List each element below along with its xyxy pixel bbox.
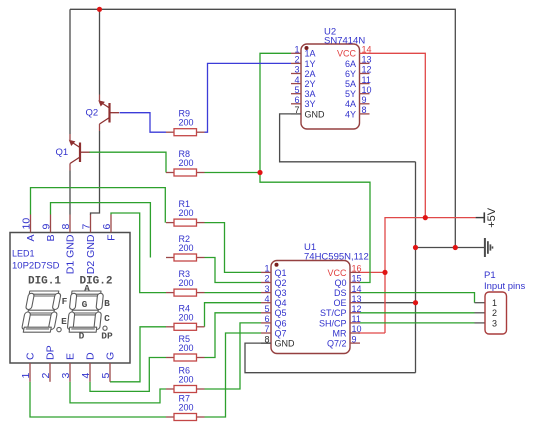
resistor R6 body xyxy=(174,386,197,393)
wire GND top rail from Q1 collector to right drop to ground rail xyxy=(70,9,455,247)
svg-text:5Y: 5Y xyxy=(345,89,356,99)
svg-text:Q2: Q2 xyxy=(275,278,287,288)
ground symbol xyxy=(485,238,493,257)
wire Q1 emitter to display D1-GND pin 8 xyxy=(69,171,71,215)
svg-text:4: 4 xyxy=(80,373,92,379)
resistor R8 right lead xyxy=(197,172,205,174)
svg-text:10: 10 xyxy=(21,218,33,230)
svg-text:7: 7 xyxy=(294,105,299,115)
wire R2 right to U1 Q2 pin2 xyxy=(205,258,262,283)
wire U1 DS pin14 to P1 pin1 xyxy=(360,293,475,303)
resistor R4 body xyxy=(174,323,197,330)
resistor R5 right lead xyxy=(197,357,205,359)
svg-text:6Y: 6Y xyxy=(345,69,356,79)
svg-text:200: 200 xyxy=(179,312,194,322)
wire U1 ST/CP pin12 to P1 pin2 xyxy=(360,312,475,314)
connector P1 body xyxy=(485,292,507,334)
svg-text:E: E xyxy=(61,316,67,327)
wire R9 right to U2 1Y pin2 (blue) xyxy=(205,63,292,132)
svg-text:6: 6 xyxy=(294,95,299,105)
display digit 2 segments xyxy=(67,291,104,332)
junction dot at 385,272.4 xyxy=(382,270,387,275)
svg-text:Q0: Q0 xyxy=(334,278,346,288)
resistor R7 left lead xyxy=(166,416,174,418)
wire U1 SH/CP pin11 to P1 pin3 xyxy=(360,322,475,324)
display bottom pin stubs xyxy=(29,363,31,382)
svg-text:5A: 5A xyxy=(345,79,356,89)
wire ground rail to earth symbol xyxy=(416,247,485,249)
svg-text:2: 2 xyxy=(40,373,52,379)
wire display segment A pin10 to R1 left xyxy=(31,188,166,223)
junction dot at 260,172.5 xyxy=(257,170,262,175)
wire display segment E pin3 to R6 left xyxy=(70,382,166,403)
svg-text:6: 6 xyxy=(101,224,113,230)
svg-text:200: 200 xyxy=(179,118,194,128)
svg-text:8: 8 xyxy=(362,105,367,115)
svg-text:9: 9 xyxy=(352,334,357,344)
svg-text:15: 15 xyxy=(352,274,362,284)
U1 pin 1 orientation dot xyxy=(275,263,279,267)
svg-text:74HC595N,112: 74HC595N,112 xyxy=(304,252,369,263)
wire Q1 base to R8 left xyxy=(89,152,166,172)
wire +5V red rail xyxy=(385,218,476,333)
svg-text:10: 10 xyxy=(352,324,362,334)
transistor Q1 emitter stub xyxy=(69,164,71,171)
svg-text:200: 200 xyxy=(179,375,194,385)
svg-text:Q1: Q1 xyxy=(56,147,69,158)
svg-text:G: G xyxy=(105,352,117,360)
svg-text:SH/CP: SH/CP xyxy=(319,318,347,328)
wire ground net vertical x=415.5 xyxy=(415,162,417,373)
svg-text:16: 16 xyxy=(352,264,362,274)
wire U1 MR pin10 to red net xyxy=(358,332,385,334)
svg-text:2A: 2A xyxy=(305,69,316,79)
svg-text:13: 13 xyxy=(352,294,362,304)
op-amp U2 SN7414N body xyxy=(301,44,360,129)
transistor Q2 collector stub xyxy=(99,95,101,102)
wire R5 right to U1 Q5 pin5 xyxy=(205,313,262,358)
svg-text:DP: DP xyxy=(101,330,113,341)
svg-text:10: 10 xyxy=(362,85,372,95)
transistor Q2 base lead xyxy=(110,112,120,114)
svg-text:Q3: Q3 xyxy=(275,288,287,298)
svg-text:C: C xyxy=(25,352,37,360)
wire Q2 base to R9 left (blue) xyxy=(120,113,167,133)
resistor R7 right lead xyxy=(197,416,205,418)
svg-text:2: 2 xyxy=(492,308,497,318)
resistor R2 right lead xyxy=(197,257,205,259)
svg-text:6: 6 xyxy=(264,314,269,324)
wire display segment B pin9 to R2 left xyxy=(51,203,151,258)
svg-text:Q7: Q7 xyxy=(275,328,287,338)
svg-text:G: G xyxy=(82,299,88,310)
svg-text:E: E xyxy=(65,353,77,360)
svg-text:13: 13 xyxy=(362,55,372,65)
svg-text:6A: 6A xyxy=(345,59,356,69)
wire U1 OE pin13 to ground net xyxy=(360,302,416,304)
svg-text:D: D xyxy=(79,330,85,341)
svg-text:Q1: Q1 xyxy=(275,268,287,278)
svg-text:11: 11 xyxy=(352,314,361,324)
svg-text:8: 8 xyxy=(264,334,269,344)
svg-text:2: 2 xyxy=(294,55,299,65)
svg-text:12: 12 xyxy=(362,65,372,75)
resistor R6 right lead xyxy=(197,388,205,390)
wire Q2 emitter to display D2-GND pin 7 with jog xyxy=(91,131,100,215)
svg-text:3: 3 xyxy=(492,318,497,328)
svg-text:B: B xyxy=(104,298,110,309)
junction dot at 415.5,247.5 xyxy=(413,245,418,250)
svg-text:B: B xyxy=(45,235,57,242)
transistor Q1 base bar xyxy=(79,143,81,163)
svg-text:9: 9 xyxy=(362,95,367,105)
svg-text:10P2D7SD: 10P2D7SD xyxy=(12,261,60,272)
junction dot at 425.3,217.6 xyxy=(423,215,428,220)
resistor R4 left lead xyxy=(166,326,174,328)
wire Q2 collector vertical xyxy=(99,9,101,94)
svg-text:1: 1 xyxy=(20,373,32,379)
wire display segment G pin5 to R4 left xyxy=(110,327,166,382)
svg-text:DIG.1: DIG.1 xyxy=(28,276,61,288)
wire U1 VCC pin16 to red net xyxy=(358,271,385,273)
svg-text:1Y: 1Y xyxy=(305,59,316,69)
U2 pin 1 orientation dot xyxy=(305,46,309,50)
wire Q1 collector vertical xyxy=(69,9,71,134)
svg-text:Q6: Q6 xyxy=(275,318,287,328)
resistor R7 body xyxy=(174,414,197,421)
U2 pin stubs right xyxy=(360,52,370,54)
svg-text:F: F xyxy=(106,235,118,241)
resistor R5 body xyxy=(174,354,197,361)
svg-text:3: 3 xyxy=(60,373,72,379)
svg-text:200: 200 xyxy=(179,243,194,253)
svg-text:VCC: VCC xyxy=(327,268,347,278)
wire R8 right lead to junction xyxy=(205,172,261,174)
svg-text:5: 5 xyxy=(264,304,269,314)
transistor Q1 collector diagonal with arrow xyxy=(70,141,80,148)
transistor Q1 collector stub xyxy=(69,134,71,141)
svg-text:3Y: 3Y xyxy=(305,99,316,109)
wire R7 right to U1 Q7 pin7 xyxy=(205,333,262,417)
resistor R3 right lead xyxy=(197,292,205,294)
svg-text:D: D xyxy=(85,352,97,360)
wire R6 right to U1 Q6 pin6 xyxy=(205,323,262,389)
resistor R3 left lead xyxy=(166,292,174,294)
svg-text:200: 200 xyxy=(179,343,194,353)
svg-text:P1: P1 xyxy=(484,270,496,281)
wire display segment C pin1 to R7 left xyxy=(30,382,166,417)
svg-text:A: A xyxy=(84,283,90,294)
resistor R6 left lead xyxy=(166,388,174,390)
svg-text:200: 200 xyxy=(179,208,194,218)
svg-text:LED1: LED1 xyxy=(12,249,35,259)
transistor Q2 emitter stub xyxy=(99,124,101,131)
svg-text:1: 1 xyxy=(492,298,497,308)
resistor R9 left lead xyxy=(166,131,174,133)
svg-text:D1 GND: D1 GND xyxy=(65,234,77,274)
resistor R8 left lead xyxy=(166,172,174,174)
wire R3 right to U1 Q3 pin3 xyxy=(205,292,262,294)
svg-text:1: 1 xyxy=(294,45,299,55)
svg-text:Input pins: Input pins xyxy=(484,281,525,292)
svg-text:C: C xyxy=(104,313,110,324)
svg-text:+5V: +5V xyxy=(486,207,498,228)
svg-text:8: 8 xyxy=(60,224,72,230)
svg-text:2Y: 2Y xyxy=(305,79,316,89)
display top pin stubs xyxy=(30,215,32,233)
U1 pin stubs left xyxy=(261,271,271,273)
svg-text:Q7/2: Q7/2 xyxy=(327,339,347,349)
+5V terminal bar xyxy=(483,212,485,222)
wire R1 right to U1 Q1 pin1 xyxy=(205,223,262,273)
svg-text:3A: 3A xyxy=(305,89,316,99)
svg-text:7: 7 xyxy=(81,224,93,230)
svg-text:SN7414N: SN7414N xyxy=(324,36,365,47)
+5V terminal lead xyxy=(476,217,485,219)
svg-text:DP: DP xyxy=(45,345,57,360)
resistor R1 right lead xyxy=(197,222,205,224)
seven-segment display LED1 outline box xyxy=(10,233,130,364)
P1 pin stubs xyxy=(475,302,486,304)
svg-text:200: 200 xyxy=(179,278,194,288)
resistor R2 body xyxy=(174,254,197,261)
resistor R1 body xyxy=(174,219,197,226)
svg-text:2: 2 xyxy=(264,274,269,284)
svg-text:200: 200 xyxy=(179,158,194,168)
svg-text:Q4: Q4 xyxy=(275,298,287,308)
svg-text:D2 GND: D2 GND xyxy=(85,234,97,274)
resistor R9 body xyxy=(174,129,197,136)
wire R4 right to U1 Q4 pin4 xyxy=(205,303,262,327)
transistor Q2 base bar xyxy=(108,103,110,123)
transistor Q1 emitter diagonal xyxy=(70,157,80,164)
svg-text:DS: DS xyxy=(334,288,347,298)
svg-text:9: 9 xyxy=(41,224,53,230)
svg-text:200: 200 xyxy=(179,403,194,413)
wire U1 GND pin8 route left-down-right xyxy=(245,343,416,373)
svg-text:14: 14 xyxy=(352,284,362,294)
wire display segment D pin4 to R5 left xyxy=(90,358,166,392)
svg-text:Q5: Q5 xyxy=(275,308,287,318)
svg-text:3: 3 xyxy=(264,284,269,294)
svg-text:GND: GND xyxy=(305,109,326,119)
svg-text:4: 4 xyxy=(294,75,299,85)
resistor R3 body xyxy=(174,289,197,296)
svg-text:4: 4 xyxy=(264,294,269,304)
svg-text:GND: GND xyxy=(275,339,296,349)
display digit 1 segments xyxy=(21,291,61,332)
svg-text:OE: OE xyxy=(333,298,346,308)
transistor Q1 base lead xyxy=(80,151,90,153)
transistor Q2 emitter diagonal xyxy=(100,118,110,125)
svg-text:4A: 4A xyxy=(345,99,356,109)
resistor R2 left lead xyxy=(166,257,174,259)
resistor R5 left lead xyxy=(166,357,174,359)
svg-text:5: 5 xyxy=(294,85,299,95)
svg-text:1: 1 xyxy=(264,264,269,274)
svg-text:ST/CP: ST/CP xyxy=(320,308,347,318)
resistor R4 right lead xyxy=(197,326,205,328)
transistor Q2 collector diagonal with arrow xyxy=(100,102,110,109)
svg-text:F: F xyxy=(62,296,68,307)
wire display segment F pin6 to R3 left xyxy=(111,213,166,293)
svg-text:14: 14 xyxy=(362,45,372,55)
U2 pin stubs left xyxy=(291,52,301,54)
svg-text:VCC: VCC xyxy=(337,49,357,59)
display digit 1 decimal point xyxy=(57,327,61,331)
svg-text:MR: MR xyxy=(333,328,347,338)
wire U2 VCC pin14 to +5V rail xyxy=(368,53,425,217)
junction dot at 415.5,302.7 xyxy=(413,300,418,305)
svg-text:12: 12 xyxy=(352,304,362,314)
resistor R8 body xyxy=(174,169,197,176)
junction dot at 99.5,9.3 xyxy=(97,7,102,12)
display digit 2 decimal point xyxy=(103,326,107,330)
junction dot at 455.3,247.5 xyxy=(453,245,458,250)
svg-text:11: 11 xyxy=(362,75,371,85)
svg-text:4Y: 4Y xyxy=(345,109,356,119)
wire U2 GND pin7 route left-down-right to ground net xyxy=(280,114,416,162)
svg-text:5: 5 xyxy=(100,373,112,379)
svg-text:Q2: Q2 xyxy=(86,108,99,119)
wire net U2-1A / R8 / U1-Q0 xyxy=(260,53,370,282)
resistor R1 left lead xyxy=(166,222,174,224)
svg-text:7: 7 xyxy=(264,324,269,334)
svg-text:A: A xyxy=(25,235,37,242)
svg-text:1A: 1A xyxy=(305,49,316,59)
svg-text:3: 3 xyxy=(294,65,299,75)
U1 pin stubs right xyxy=(350,271,360,273)
shift register U1 74HC595N body xyxy=(271,261,350,354)
resistor R9 right lead xyxy=(197,131,205,133)
